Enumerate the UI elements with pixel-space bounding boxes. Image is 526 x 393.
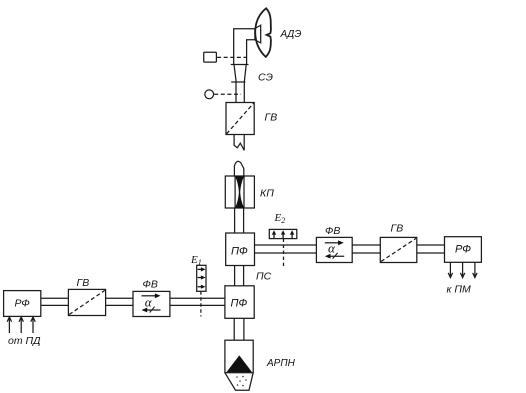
svg-text:СЭ: СЭ bbox=[258, 72, 273, 84]
svg-text:ГВ: ГВ bbox=[391, 223, 404, 235]
wire right horizontal guide ПФ to ФВ bbox=[255, 245, 317, 253]
block ГВ right bbox=[380, 237, 417, 262]
svg-text:α: α bbox=[145, 294, 153, 309]
wire narrow guide to ГВ bbox=[236, 82, 244, 103]
wire ПФ lower to АРПН bbox=[234, 318, 244, 340]
wire РФ to ГВ left bbox=[41, 298, 69, 305]
antenna feed horn bbox=[255, 25, 261, 43]
flange lower bbox=[231, 81, 245, 83]
svg-text:РФ: РФ bbox=[455, 244, 471, 256]
taper section СЭ bbox=[234, 65, 236, 83]
probe Е2 arrow box bbox=[269, 229, 297, 238]
svg-text:РФ: РФ bbox=[15, 298, 30, 310]
block ГВ top bbox=[226, 103, 254, 135]
dashed Е1 line bbox=[200, 291, 202, 316]
block РФ right bbox=[445, 237, 482, 263]
wire break upper bbox=[234, 135, 244, 151]
antenna АДЭ lens bbox=[255, 8, 271, 57]
svg-text:к ПМ: к ПМ bbox=[447, 284, 471, 296]
probe Е1 arrow box bbox=[197, 265, 206, 291]
waveguide elbow to antenna bbox=[234, 29, 255, 65]
dashed screw line bbox=[214, 93, 241, 95]
svg-text:от ПД: от ПД bbox=[8, 335, 41, 347]
load АРПН bbox=[225, 340, 253, 373]
svg-text:E2: E2 bbox=[274, 212, 286, 225]
flange upper bbox=[231, 64, 249, 66]
svg-text:E1: E1 bbox=[190, 254, 202, 267]
svg-text:α: α bbox=[328, 241, 336, 256]
block ФВ left bbox=[133, 291, 170, 316]
svg-text:ФВ: ФВ bbox=[143, 279, 158, 291]
wire ГВ to ФВ left bbox=[106, 298, 133, 305]
wire КП to ПФ upper bbox=[235, 208, 244, 233]
input arrows от ПД bbox=[7, 317, 11, 333]
dashed Е2 line bbox=[283, 239, 285, 268]
block ПФ lower bbox=[225, 286, 254, 319]
wire ГВ to РФ right bbox=[417, 245, 445, 253]
dashed probe line bbox=[217, 56, 246, 58]
svg-text:ПФ: ПФ bbox=[231, 298, 248, 310]
block ФВ right bbox=[316, 237, 352, 262]
detector probe square bbox=[204, 52, 217, 62]
wire ФВ to ГВ right bbox=[352, 245, 380, 253]
svg-text:ГВ: ГВ bbox=[265, 112, 278, 124]
svg-text:ПФ: ПФ bbox=[231, 246, 248, 258]
wire ПС guide between ПФ blocks bbox=[235, 266, 244, 286]
svg-text:КП: КП bbox=[260, 188, 274, 200]
svg-text:ФВ: ФВ bbox=[325, 225, 340, 237]
block ПФ upper bbox=[226, 233, 255, 266]
tuning screw circle bbox=[205, 90, 214, 99]
svg-text:ПС: ПС bbox=[256, 271, 272, 283]
svg-text:ГВ: ГВ bbox=[77, 277, 90, 289]
wire break lower bbox=[234, 161, 243, 176]
wire left horizontal guide ФВ to ПФ lower bbox=[170, 298, 225, 305]
svg-text:АДЭ: АДЭ bbox=[280, 29, 302, 40]
block РФ left bbox=[4, 291, 41, 317]
block КП bbox=[225, 176, 254, 208]
svg-text:АРПН: АРПН bbox=[266, 358, 296, 369]
output arrows к ПМ bbox=[448, 262, 452, 277]
block ГВ left bbox=[68, 289, 105, 315]
